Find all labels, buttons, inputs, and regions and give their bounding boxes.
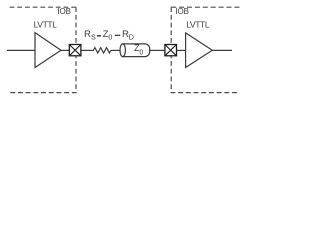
wire left pad to resistor	[82, 49, 94, 51]
transmission line Z0 (left end ellipse)	[120, 44, 125, 57]
IOB dashed boundary (left block)	[7, 6, 76, 8]
wire right pad to receiver	[177, 49, 186, 51]
svg-text:LVTTL: LVTTL	[186, 20, 210, 30]
wire resistor to transmission line	[111, 49, 120, 51]
wire input to left driver	[7, 49, 35, 51]
svg-text:IOB: IOB	[175, 7, 188, 16]
transmission line Z0 (cylinder body)	[123, 44, 150, 57]
svg-text:0: 0	[108, 33, 112, 42]
svg-text:R: R	[84, 29, 91, 40]
buffer (left LVTTL driver)	[35, 33, 61, 68]
pad (right IOB pad, box with X)	[165, 45, 177, 56]
svg-text:IOB: IOB	[57, 7, 70, 16]
resistor RS (series)	[93, 48, 110, 53]
svg-text:0: 0	[139, 50, 143, 57]
formula label: minus sign	[115, 35, 120, 36]
pad (left IOB pad, box with X)	[69, 45, 81, 56]
formula label: equals sign	[97, 35, 101, 37]
IOB dashed boundary (right block)	[171, 6, 239, 8]
wire receiver output	[212, 49, 232, 51]
buffer (right LVTTL receiver)	[186, 33, 213, 68]
svg-text:D: D	[129, 33, 134, 42]
wire driver to left pad	[61, 49, 69, 51]
wire transmission line to right pad	[150, 49, 165, 51]
svg-text:LVTTL: LVTTL	[34, 20, 58, 30]
svg-text:S: S	[91, 33, 96, 42]
